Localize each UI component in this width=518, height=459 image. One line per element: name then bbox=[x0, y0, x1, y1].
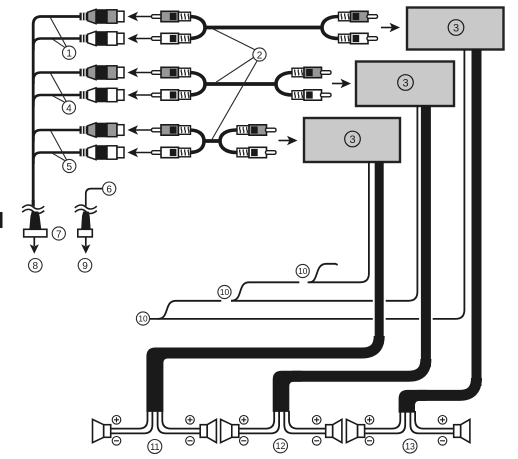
speaker 11 left bbox=[93, 419, 111, 442]
wire: RCA cable 2 loop right bbox=[276, 73, 293, 96]
antenna adapter 9 bbox=[78, 229, 93, 237]
label 12 bbox=[274, 439, 288, 453]
speaker 12 right bbox=[326, 419, 342, 442]
wire: system remote pigtail stub bbox=[310, 264, 338, 283]
label 7 bbox=[52, 227, 65, 240]
RCA plug 3 right (gray) bbox=[292, 67, 331, 77]
svg-text:3: 3 bbox=[349, 134, 355, 146]
wire: lead to output jack 5 bbox=[33, 130, 79, 142]
label 13 bbox=[403, 439, 417, 453]
arrow into amplifier 2 bbox=[332, 79, 351, 89]
arrow to antenna jack 8 bbox=[30, 237, 39, 254]
RCA plug 2 left (white) bbox=[152, 33, 191, 43]
speaker wires pair 13 bbox=[364, 411, 453, 433]
RCA plug 4 left (white) bbox=[152, 90, 191, 100]
RCA plug 3 left (gray) bbox=[152, 67, 191, 77]
RCA plug 1 left (gray) bbox=[152, 11, 191, 21]
antenna adapter 7 bbox=[24, 229, 47, 237]
label 2 bbox=[253, 48, 266, 61]
RCA output jack 2 (white) bbox=[80, 31, 125, 46]
label 4 bbox=[62, 101, 75, 114]
arrow into amplifier 1 bbox=[381, 23, 400, 33]
break in antenna lead 7 bbox=[22, 205, 44, 213]
wire: system remote lead of amp 2 bbox=[232, 105, 418, 301]
amplifier U3 (bottom) bbox=[304, 118, 400, 162]
label 10a bbox=[296, 264, 309, 277]
plus mark 11 left bbox=[112, 416, 121, 425]
svg-text:11: 11 bbox=[150, 442, 159, 452]
wire: RCA cable 1 loop left bbox=[189, 17, 205, 39]
label 5 leader lines bbox=[51, 131, 67, 161]
svg-text:12: 12 bbox=[276, 441, 286, 451]
plus mark 13 right bbox=[438, 416, 447, 425]
wire: system remote lead segment left of label 10a bbox=[231, 282, 299, 301]
plus mark 11 right bbox=[186, 416, 195, 425]
wire: RCA cable 3 loop right bbox=[220, 130, 237, 153]
label 5 bbox=[63, 159, 76, 172]
label 4 leader lines bbox=[51, 73, 67, 102]
svg-text:3: 3 bbox=[402, 77, 408, 89]
speaker cable from amp 1 bbox=[399, 49, 477, 413]
wire: lead to output jack 3 bbox=[33, 73, 79, 85]
label 11 bbox=[148, 440, 162, 454]
RCA output jack 3 (gray) bbox=[80, 65, 125, 80]
wire: lead to output jack 2 bbox=[33, 39, 79, 51]
label 9 bbox=[78, 259, 92, 273]
speaker cable from amp 2 bbox=[273, 105, 426, 412]
RCA plug 5 left (gray) bbox=[152, 125, 191, 135]
arrow into jack 2 bbox=[128, 34, 153, 44]
wire: system remote lead of amp 3 bbox=[308, 161, 369, 282]
svg-text:1: 1 bbox=[66, 49, 72, 60]
arrow into jack 5 bbox=[128, 125, 153, 135]
speaker 13 right bbox=[454, 419, 470, 442]
minus mark 11 right bbox=[186, 437, 195, 446]
amplifier U2 (middle) bbox=[356, 62, 454, 107]
speaker 12 left bbox=[221, 419, 239, 442]
antenna plug 7 bbox=[29, 212, 41, 230]
arrow to antenna jack 9 bbox=[81, 237, 90, 254]
plus mark 13 left bbox=[365, 416, 374, 425]
minus mark 13 left bbox=[365, 437, 374, 446]
minus mark 13 right bbox=[438, 437, 447, 446]
wire: lead to output jack 4 bbox=[33, 95, 79, 107]
minus mark 12 right bbox=[312, 437, 321, 446]
label 10c bbox=[136, 312, 149, 325]
plus mark 12 right bbox=[312, 416, 321, 425]
wire: RCA cable 1 run bbox=[204, 26, 322, 30]
speaker wires pair 11 bbox=[111, 411, 200, 433]
wire: RCA cable 2 loop left bbox=[189, 73, 205, 96]
RCA output jack 6 (white) bbox=[80, 145, 125, 160]
speaker cable from amp 3 bbox=[146, 161, 379, 412]
RCA plug 6 left (white) bbox=[152, 147, 191, 157]
wire: system remote lead segment left of label 10b bbox=[158, 301, 222, 319]
arrow into jack 3 bbox=[128, 68, 153, 78]
RCA output jack 4 (white) bbox=[80, 88, 125, 103]
speaker 13 left bbox=[346, 419, 364, 442]
label 2 leader lines bbox=[212, 29, 257, 140]
wire: RCA cable 3 loop left bbox=[189, 130, 204, 153]
wire: lead to output jack 6 bbox=[33, 153, 79, 165]
break in antenna lead 9 bbox=[75, 205, 97, 213]
svg-text:3: 3 bbox=[453, 22, 459, 34]
svg-text:9: 9 bbox=[82, 261, 88, 272]
wire: antenna adapter lead (6) bbox=[86, 189, 103, 214]
label 8 bbox=[29, 259, 43, 273]
svg-text:2: 2 bbox=[257, 50, 263, 61]
svg-text:5: 5 bbox=[67, 162, 73, 173]
svg-text:7: 7 bbox=[56, 229, 62, 240]
wire: RCA cable 1 loop right bbox=[322, 17, 339, 39]
speaker 11 right bbox=[200, 419, 216, 442]
svg-text:10: 10 bbox=[220, 287, 230, 297]
minus mark 12 left bbox=[240, 437, 249, 446]
svg-text:10: 10 bbox=[298, 266, 308, 276]
wire: head-unit lead bundle vertical bbox=[33, 17, 79, 213]
speaker wires pair 12 bbox=[238, 411, 326, 433]
svg-text:6: 6 bbox=[106, 184, 112, 195]
svg-text:13: 13 bbox=[405, 441, 415, 451]
amplifier U1 (top) bbox=[407, 8, 504, 50]
label 10b bbox=[218, 285, 231, 298]
wire: antenna lead (7) bbox=[32, 200, 35, 214]
RCA plug 2 right (white) bbox=[339, 33, 378, 43]
svg-text:4: 4 bbox=[66, 103, 72, 114]
arrow into amplifier 3 bbox=[279, 136, 298, 146]
wire: RCA cable 2 run bbox=[204, 82, 276, 86]
wire: system remote lead of amp 1 bbox=[150, 49, 465, 319]
arrow into jack 6 bbox=[128, 148, 153, 158]
edge fragment at left border bbox=[0, 212, 3, 228]
RCA plug 5 right (gray) bbox=[237, 125, 276, 135]
label 1 leader lines bbox=[50, 18, 66, 48]
RCA output jack 5 (gray) bbox=[80, 123, 125, 138]
minus mark 11 left bbox=[112, 437, 121, 446]
label 6 bbox=[103, 182, 116, 195]
plus mark 12 left bbox=[240, 416, 249, 425]
RCA output jack 1 (gray) bbox=[80, 9, 125, 24]
RCA plug 4 right (white) bbox=[292, 90, 331, 100]
RCA plug 6 right (white) bbox=[237, 147, 276, 157]
arrow into jack 1 bbox=[128, 12, 153, 22]
wire: RCA cable 3 run bbox=[203, 139, 220, 143]
antenna plug 9 bbox=[81, 212, 91, 230]
RCA plug 1 right (gray) bbox=[339, 11, 378, 21]
svg-text:10: 10 bbox=[138, 314, 148, 324]
svg-text:8: 8 bbox=[33, 261, 39, 272]
arrow into jack 4 bbox=[128, 90, 153, 100]
label 1 bbox=[63, 46, 76, 59]
